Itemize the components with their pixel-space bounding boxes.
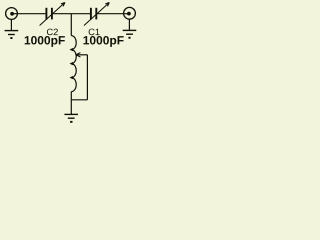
value 1000pF (C2) (25, 36, 65, 47)
capacitor C1 (variable, 1000pF) (84, 3, 109, 26)
wire C1 to J2 (97, 13, 127, 15)
inductor L1 (variable roller coil) (70, 36, 77, 92)
wire connector J1 stem to ground (10, 19, 12, 30)
tap arrow (inductor wiper) (71, 53, 87, 100)
capacitor C2 (variable, 1000pF) (40, 3, 65, 26)
wire C2 to C1 (53, 13, 90, 15)
connector J2 (output coax) (124, 7, 136, 19)
wire junction to inductor L1 (70, 14, 72, 36)
label C1 (89, 29, 100, 36)
wire coil bottom to ground (70, 92, 72, 115)
label C2 (47, 29, 58, 36)
wire J1 to C2 (14, 13, 46, 15)
wire connector J2 stem to ground (128, 19, 130, 30)
connector J1 (input coax) (6, 8, 18, 20)
ground (output connector) (123, 30, 137, 38)
ground (input connector) (5, 31, 19, 39)
ground (inductor) (64, 114, 78, 122)
value 1000pF (C1) (83, 36, 123, 47)
